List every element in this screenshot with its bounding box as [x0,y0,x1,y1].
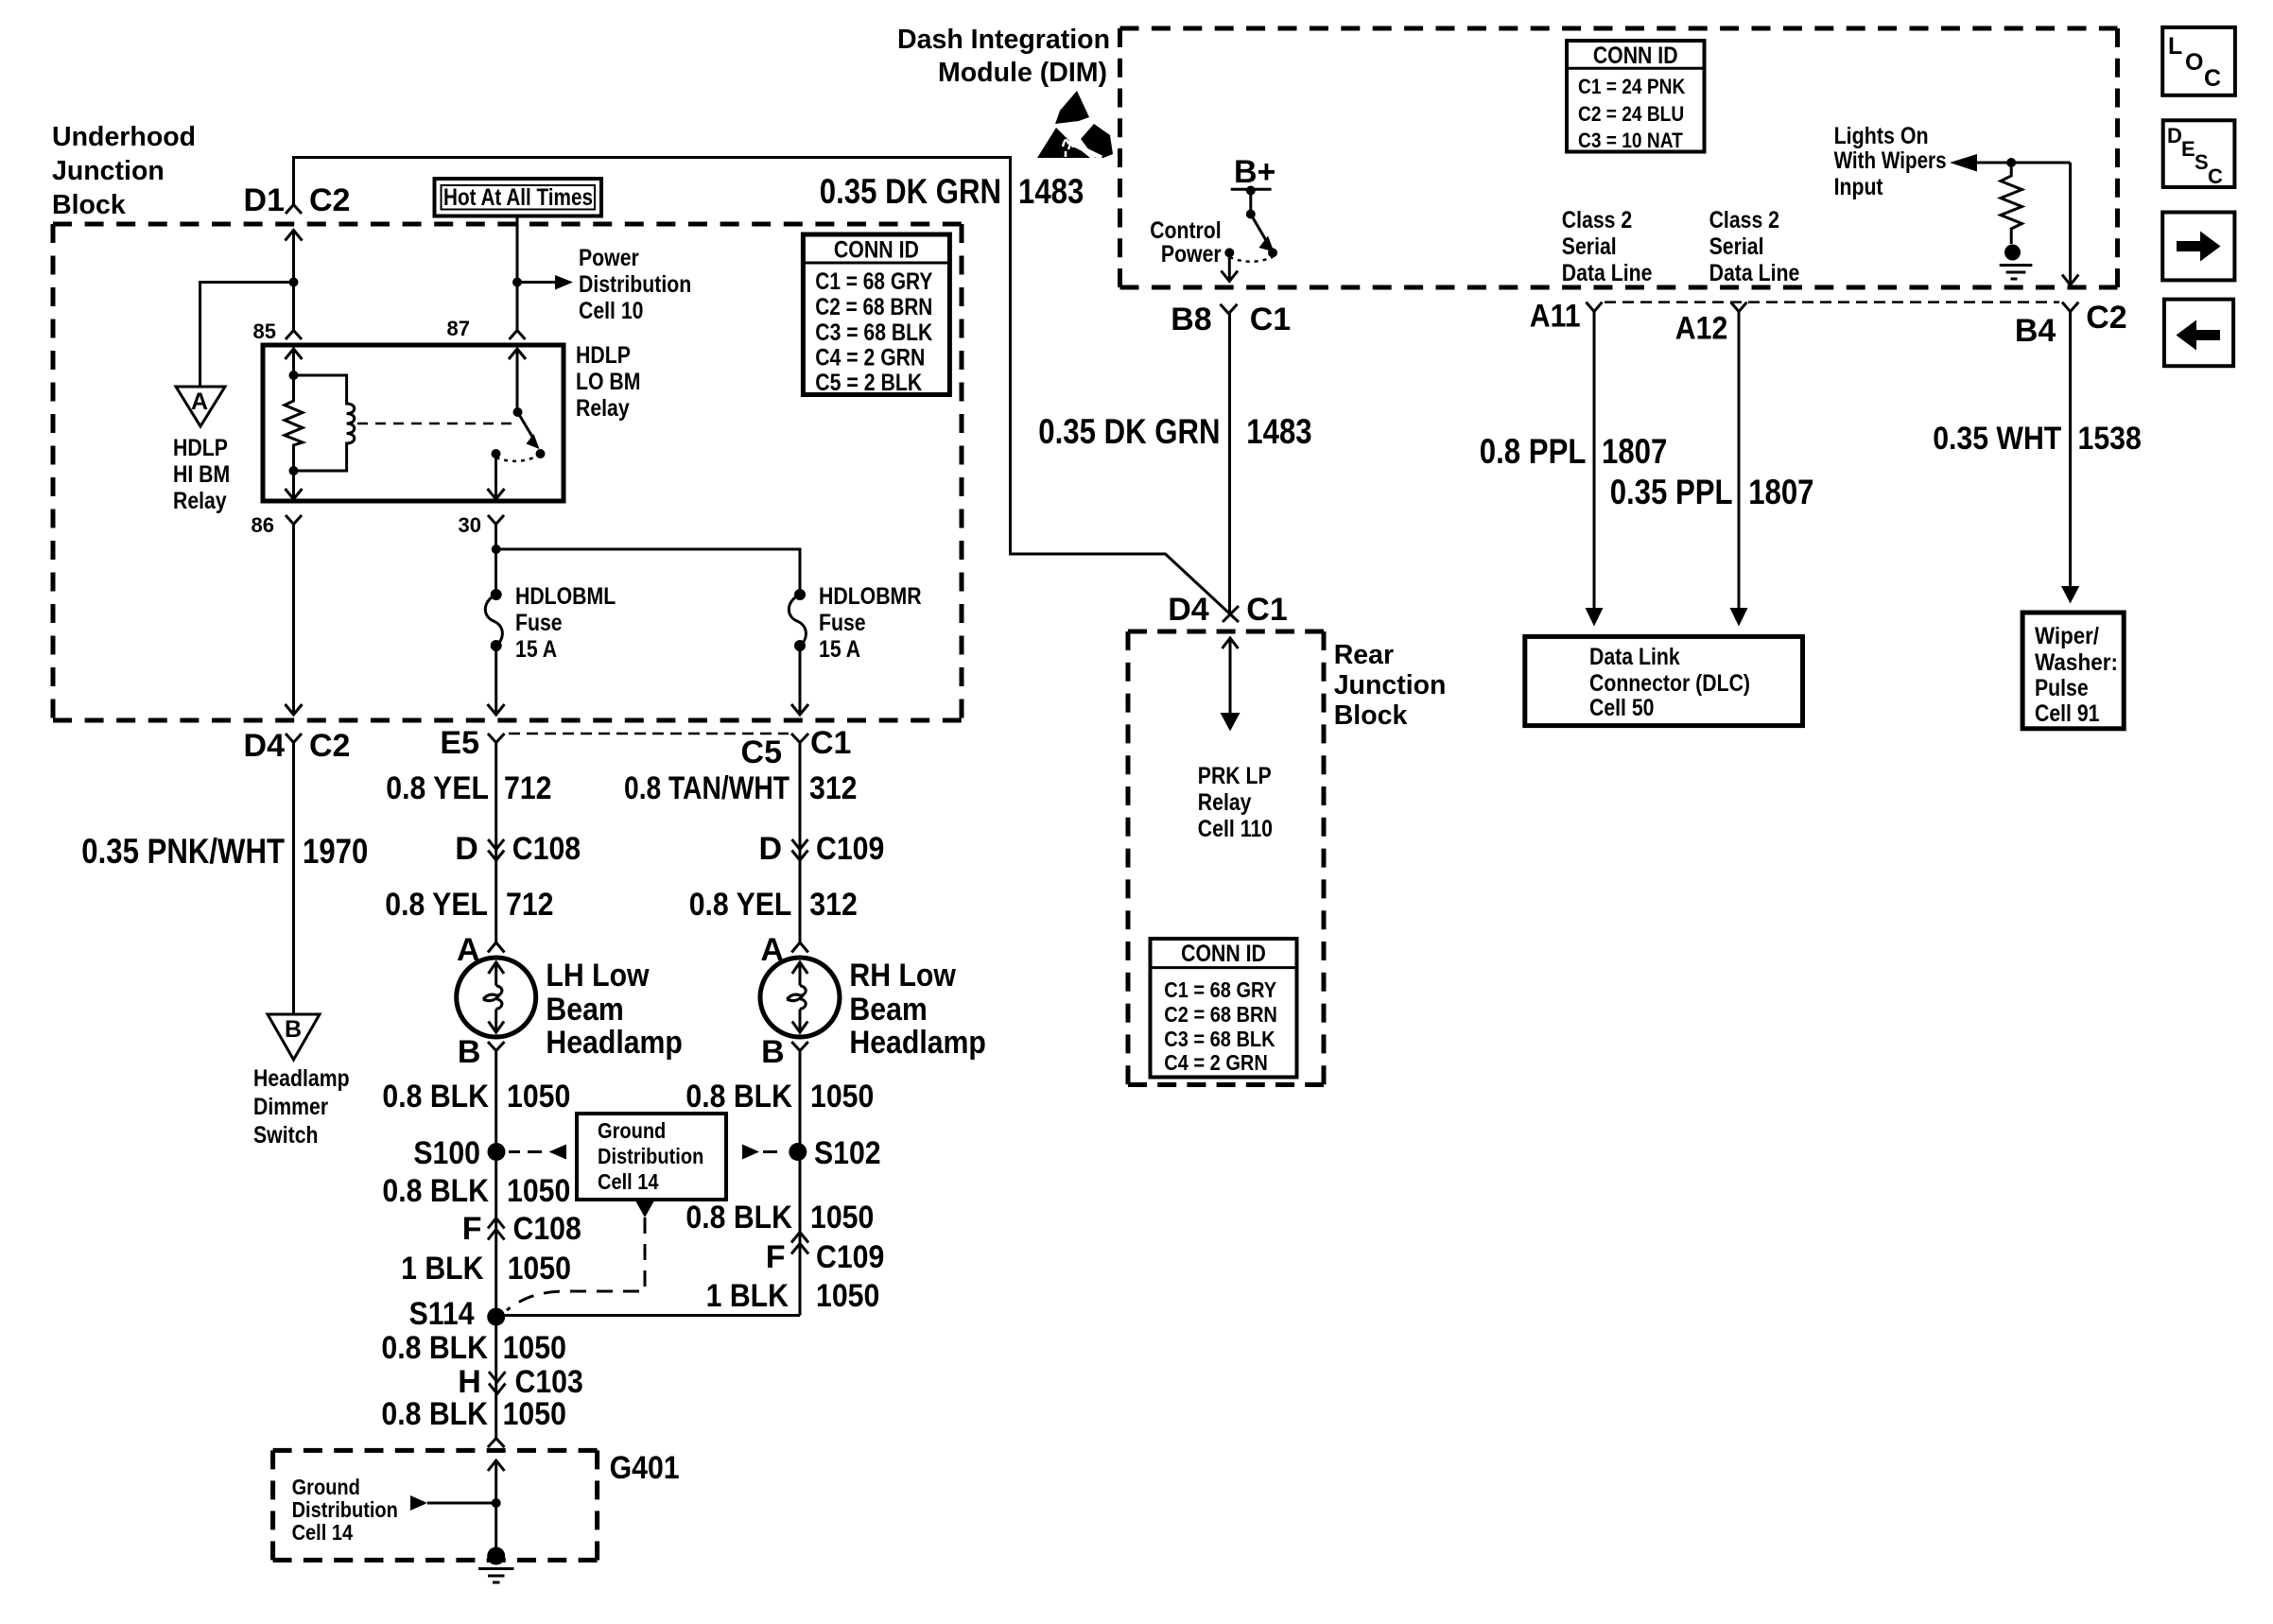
svg-text:CONN ID: CONN ID [1181,941,1266,967]
svg-text:Dimmer: Dimmer [253,1094,328,1120]
svg-text:0.8 TAN/WHT: 0.8 TAN/WHT [624,770,789,806]
wire: B4 drop with exit arrow [2069,163,2072,285]
triangle reference B (Headlamp Dimmer Switch) [268,1014,320,1060]
svg-text:H: H [458,1364,481,1400]
svg-text:1 BLK: 1 BLK [401,1251,484,1287]
svg-text:0.35 DK GRN: 0.35 DK GRN [820,172,1001,211]
connector row dotted line A11-B4 [1605,301,2059,303]
ESD symbol [1055,91,1089,124]
wire: branch to right fuse [496,549,800,595]
svg-text:B: B [285,1016,302,1043]
underhood junction block dashed boundary [53,224,962,720]
svg-text:HI BM: HI BM [173,461,230,488]
svg-text:B+: B+ [1234,154,1275,190]
wire: S114 to G401 [495,1317,497,1439]
wire: A12 to DLC [1738,312,1741,608]
svg-text:712: 712 [504,770,552,806]
svg-text:D4: D4 [244,728,286,764]
svg-text:Lights On: Lights On [1834,123,1929,149]
svg-text:C2 = 68 BRN: C2 = 68 BRN [815,294,932,320]
svg-text:C3 = 10 NAT: C3 = 10 NAT [1578,129,1683,152]
connector F / C109 [791,1233,808,1254]
control power switch [1249,189,1252,214]
DIM dashed boundary [1120,28,2118,287]
svg-text:0.8 YEL: 0.8 YEL [386,770,489,806]
svg-text:F: F [766,1239,786,1275]
svg-text:Class 2: Class 2 [1709,207,1779,233]
svg-text:Junction: Junction [52,156,165,186]
data link connector box [1525,636,1803,725]
node pull-up tap [2006,158,2016,167]
svg-text:C2: C2 [309,728,350,764]
connector pin A [791,942,808,953]
svg-text:Data Link: Data Link [1589,644,1680,670]
svg-text:Junction: Junction [1334,670,1447,700]
wire: lamp B down to S114 [495,1051,497,1318]
svg-text:0.8 YEL: 0.8 YEL [689,887,792,923]
connector pin B [488,1042,505,1051]
ground G401 symbol [487,1547,505,1565]
svg-text:C2: C2 [309,182,350,218]
svg-text:Cell 110: Cell 110 [1198,816,1273,842]
connector pin 30 [488,515,504,525]
node coil bottom [289,466,299,475]
svg-text:Module (DIM): Module (DIM) [938,58,1107,88]
svg-text:1970: 1970 [303,832,368,871]
svg-text:E: E [2181,137,2195,161]
wire: RH lamp B down to S114 tie [799,1051,802,1316]
svg-text:S100: S100 [413,1135,480,1171]
fuse HDLOBMR [794,589,806,600]
wire: pin87 inside relay with arrow [516,349,519,412]
svg-text:Serial: Serial [1709,233,1764,260]
RH low beam headlamp bulb [760,958,840,1037]
wire: E5 down to LH headlamp [495,743,497,943]
svg-text:Beam: Beam [849,992,927,1028]
svg-text:Relay: Relay [1198,789,1252,816]
connector C5/C1 [791,734,808,743]
wire: 86 down to bottom boundary with arrow [292,525,295,716]
svg-text:Data Line: Data Line [1709,260,1800,286]
node power distribution tap [512,278,522,287]
Hot At All Times flag [435,179,602,216]
connector D4/C2 [286,734,302,743]
svg-text:B: B [761,1034,785,1070]
wire: pin 86 exit arrow [292,471,295,499]
resistor (relay coil suppression) [285,375,303,471]
svg-text:0.35 PNK/WHT: 0.35 PNK/WHT [81,832,285,871]
svg-text:85: 85 [253,320,276,343]
svg-text:B8: B8 [1171,302,1211,337]
svg-text:D: D [455,831,478,867]
connector D / C108 [488,839,504,860]
svg-text:Power: Power [1161,241,1222,268]
svg-text:0.8 BLK: 0.8 BLK [381,1396,488,1432]
wire: left fuse to boundary arrow [495,646,497,715]
wire: pin 30 exit arrow [495,454,497,499]
svg-text:1050: 1050 [507,1079,570,1114]
DESC box [2163,120,2235,187]
svg-text:RH Low: RH Low [849,958,956,993]
svg-text:C3 = 68 BLK: C3 = 68 BLK [1164,1027,1275,1051]
svg-text:87: 87 [447,317,470,340]
node ground tie [492,1498,501,1508]
relay switch arm [518,412,536,441]
svg-text:Class 2: Class 2 [1562,207,1632,233]
triangle reference A (HDLP HI BM Relay) [176,387,225,426]
svg-text:0.8 BLK: 0.8 BLK [685,1079,792,1114]
svg-text:Headlamp: Headlamp [546,1025,683,1061]
wire: ground drop inside G401 [495,1460,497,1556]
svg-text:C1: C1 [810,725,851,761]
svg-text:0.35 DK GRN: 0.35 DK GRN [1038,412,1220,451]
wire: A11 to DLC [1593,312,1596,608]
svg-text:G401: G401 [610,1450,680,1486]
svg-text:1807: 1807 [1602,432,1667,471]
connector F / C108 [488,1218,505,1240]
svg-text:1050: 1050 [810,1079,874,1114]
svg-text:0.8 BLK: 0.8 BLK [381,1330,488,1366]
wire: to headlamp dimmer switch [292,743,295,1015]
wire: pin 87 from Hot At All Times [516,216,519,331]
svg-text:Cell 14: Cell 14 [598,1169,659,1194]
svg-text:Block: Block [1334,700,1409,731]
svg-text:Fuse: Fuse [819,610,866,636]
svg-text:Distribution: Distribution [292,1497,398,1522]
svg-text:LH Low: LH Low [546,958,650,993]
svg-text:Distribution: Distribution [598,1144,703,1168]
svg-text:Headlamp: Headlamp [849,1025,986,1061]
svg-text:30: 30 [459,513,481,537]
svg-text:Block: Block [52,190,127,220]
wire: top bus from D1/C2 to DIM drop [294,158,1240,623]
wire: B4 to wiper/washer [2069,312,2072,586]
wire: B8 down to rear junction block [1228,314,1231,616]
svg-text:With Wipers: With Wipers [1834,147,1947,174]
svg-text:0.35 WHT: 0.35 WHT [1933,421,2061,457]
relay switch contacts [536,449,546,458]
wire: PRK LP relay feed [1229,638,1232,713]
svg-text:F: F [462,1211,482,1247]
LOC box [2162,27,2235,95]
svg-text:Wiper/: Wiper/ [2035,623,2099,649]
svg-text:HDLP: HDLP [173,435,228,461]
connector D1/C2 (half above boundary) [286,205,302,215]
svg-text:A11: A11 [1530,299,1581,335]
svg-text:Input: Input [1834,174,1883,200]
forward arrow box [2162,213,2234,281]
svg-text:O: O [2185,49,2203,76]
dashed reference to ground distribution (right) [742,1145,759,1160]
svg-text:312: 312 [809,887,858,923]
svg-text:C1: C1 [1250,302,1291,337]
node: junction to HDLP HI BM relay reference [289,278,299,287]
connector half into G401 [488,1439,505,1448]
svg-text:Relay: Relay [576,395,630,422]
svg-text:Cell 50: Cell 50 [1589,695,1655,721]
connector pin 86 [286,515,302,525]
svg-text:1050: 1050 [507,1173,570,1209]
CONN ID table (DIM) [1567,41,1705,152]
connector B4/C2 [2062,302,2078,312]
svg-text:C5: C5 [741,734,782,770]
svg-text:Pulse: Pulse [2035,675,2089,701]
svg-text:C1 = 24 PNK: C1 = 24 PNK [1578,75,1685,98]
svg-text:1 BLK: 1 BLK [706,1278,789,1314]
arrow to Power Distribution [555,275,573,290]
relay box HDLP LO BM [263,345,564,501]
svg-text:C3 = 68 BLK: C3 = 68 BLK [815,320,932,346]
svg-text:PRK LP: PRK LP [1198,763,1272,789]
connector D / C109 [792,839,808,860]
connector B8/C1 [1221,304,1238,314]
splice S100 [488,1143,506,1161]
connector pin 87 [510,331,526,340]
svg-text:Fuse: Fuse [515,610,563,636]
svg-text:D: D [2167,124,2182,147]
svg-text:C1 = 68 GRY: C1 = 68 GRY [815,268,932,295]
svg-text:Relay: Relay [173,488,227,514]
wire: pin85 inside relay with arrow [292,349,295,375]
svg-text:C109: C109 [816,831,884,867]
svg-text:B: B [458,1034,481,1070]
svg-text:Cell 10: Cell 10 [579,298,644,324]
svg-text:CONN ID: CONN ID [834,237,919,264]
rear junction block dashed boundary [1128,631,1324,1085]
svg-text:Cell 91: Cell 91 [2035,700,2100,727]
connector pin A [488,942,505,953]
svg-text:Serial: Serial [1562,233,1617,260]
svg-text:A12: A12 [1675,311,1728,347]
svg-text:Power: Power [579,245,639,271]
svg-text:0.8 PPL: 0.8 PPL [1480,432,1587,471]
CONN ID table (rear) [1151,939,1297,1078]
dotted travel arc [496,455,541,461]
svg-text:86: 86 [252,513,274,537]
node fuse tee [492,544,501,554]
arrow lights-on-with-wipers [1950,154,1977,172]
dashed reference to ground distribution (left) [509,1150,542,1153]
svg-text:1538: 1538 [2078,421,2142,457]
relay actuation dashed link [357,423,512,425]
svg-text:15 A: 15 A [819,636,860,663]
svg-text:0.8 BLK: 0.8 BLK [382,1173,489,1209]
svg-text:LO BM: LO BM [576,369,641,395]
svg-text:C2: C2 [2086,300,2126,336]
wire: C1 down to RH headlamp [799,743,802,943]
svg-text:CONN ID: CONN ID [1593,43,1678,69]
svg-text:Connector (DLC): Connector (DLC) [1589,670,1750,697]
svg-text:Switch: Switch [253,1122,319,1149]
wire: 30 to fuse tee [495,525,497,596]
connector row dotted line [509,733,789,735]
svg-text:1050: 1050 [503,1396,566,1432]
svg-text:E5: E5 [440,725,479,761]
connector pin 85 (half above relay box) [286,331,302,340]
svg-text:C1: C1 [1246,592,1287,628]
svg-text:D1: D1 [244,182,285,218]
svg-text:Data Line: Data Line [1562,260,1653,286]
ground inside DIM [2004,245,2021,261]
connector pin B [791,1042,808,1051]
svg-text:C108: C108 [512,831,581,867]
svg-text:1483: 1483 [1246,412,1311,451]
svg-text:C: C [2208,164,2223,188]
svg-text:Dash Integration: Dash Integration [897,25,1110,55]
LH low beam headlamp bulb [457,958,536,1037]
svg-text:1050: 1050 [508,1251,571,1287]
svg-text:C4 = 2 GRN: C4 = 2 GRN [815,345,925,371]
wiper/washer box [2022,613,2124,729]
wire: branch to triangle A [200,283,294,388]
svg-text:S: S [2195,150,2209,174]
connector D4/C1 crossing [1223,606,1239,622]
svg-text:HDLOBML: HDLOBML [515,583,616,610]
svg-text:312: 312 [809,770,858,806]
svg-text:D4: D4 [1168,592,1209,628]
svg-text:Headlamp: Headlamp [253,1065,350,1092]
svg-text:HDLOBMR: HDLOBMR [819,583,922,610]
svg-text:Distribution: Distribution [579,271,691,298]
svg-text:B4: B4 [2015,313,2056,349]
svg-text:1050: 1050 [816,1278,879,1314]
G401 dashed boundary [273,1450,598,1560]
connector H / C103 [489,1372,506,1394]
svg-text:Hot At All Times: Hot At All Times [443,184,593,211]
back arrow box [2164,300,2233,367]
wire: control power output arrow [1228,252,1231,281]
svg-text:0.8 BLK: 0.8 BLK [382,1079,489,1114]
arrow from ground distribution [410,1495,427,1511]
svg-text:C5 = 2 BLK: C5 = 2 BLK [815,370,922,396]
relay coil [294,375,355,471]
svg-text:1483: 1483 [1018,172,1084,211]
svg-text:C1 = 68 GRY: C1 = 68 GRY [1164,977,1276,1002]
connector A11 [1587,302,1603,312]
svg-text:0.8 YEL: 0.8 YEL [385,887,488,923]
wire: branch to power distribution [517,281,555,284]
svg-text:0.35 PPL: 0.35 PPL [1610,473,1733,511]
svg-text:A: A [191,389,208,415]
svg-text:15 A: 15 A [515,636,557,663]
connector E5 [488,734,505,743]
dashed path from ground distribution box to S114 [636,1201,654,1218]
connector A12 [1731,302,1747,312]
svg-text:C109: C109 [816,1239,884,1275]
svg-text:Cell 14: Cell 14 [292,1520,354,1545]
svg-text:C2 = 24 BLU: C2 = 24 BLU [1578,102,1684,126]
svg-text:HDLP: HDLP [576,342,631,369]
svg-text:Beam: Beam [546,992,623,1028]
svg-text:1050: 1050 [503,1330,566,1366]
svg-text:1807: 1807 [1748,473,1813,511]
svg-text:712: 712 [506,887,554,923]
wire: S114 tie bar to RH branch [496,1314,800,1317]
ground distribution cell 14 box [577,1114,726,1200]
splice S102 [789,1143,807,1161]
relay switch pivot [513,407,523,417]
CONN ID table (underhood) [803,234,949,395]
wire: pin85 drop from D1/C2 with entry arrow [292,231,295,332]
svg-text:S102: S102 [814,1135,881,1171]
svg-text:C4 = 2 GRN: C4 = 2 GRN [1164,1050,1268,1075]
svg-text:Ground: Ground [292,1475,360,1499]
wire: right fuse to boundary arrow [799,646,802,715]
svg-text:C: C [2204,65,2221,92]
svg-text:Underhood: Underhood [52,122,196,152]
svg-text:Control: Control [1150,217,1222,244]
svg-text:Ground: Ground [598,1118,666,1143]
resistor (wipers input pull-up) [2001,163,2022,244]
node coil top [289,371,299,380]
svg-text:1050: 1050 [810,1200,874,1235]
svg-text:Rear: Rear [1334,640,1394,670]
svg-text:0.8 BLK: 0.8 BLK [685,1200,792,1235]
splice S114 [487,1308,505,1326]
svg-text:L: L [2168,33,2182,60]
svg-text:C103: C103 [515,1364,583,1400]
svg-text:Washer:: Washer: [2035,649,2118,676]
svg-text:C2 = 68 BRN: C2 = 68 BRN [1164,1002,1277,1027]
fuse HDLOBML [491,589,502,600]
svg-text:S114: S114 [409,1296,475,1332]
svg-text:D: D [758,831,782,867]
svg-text:C108: C108 [513,1211,581,1247]
